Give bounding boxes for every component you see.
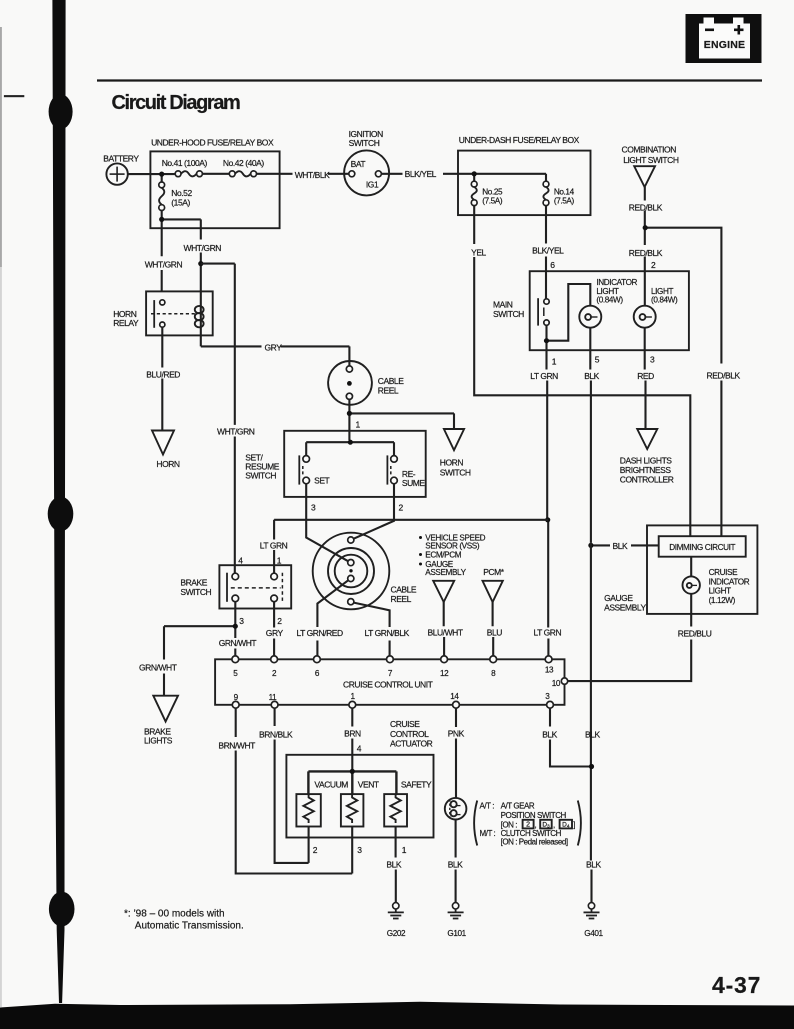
svg-text:WHT/GRN: WHT/GRN <box>217 426 255 436</box>
svg-text:SWITCH: SWITCH <box>245 470 276 480</box>
svg-text:BLK: BLK <box>613 541 628 551</box>
svg-text:RED/BLK: RED/BLK <box>629 248 663 258</box>
svg-text:4: 4 <box>238 555 243 565</box>
svg-text:GAUGE: GAUGE <box>604 593 633 603</box>
svg-text:IG1: IG1 <box>366 180 379 190</box>
svg-text:BATTERY: BATTERY <box>103 154 139 164</box>
svg-text:LT GRN: LT GRN <box>530 371 558 381</box>
svg-text:CRUISE: CRUISE <box>390 719 420 729</box>
svg-text:(7.5A): (7.5A) <box>482 196 503 205</box>
svg-text:ASSEMBLY: ASSEMBLY <box>604 603 646 613</box>
svg-text:4: 4 <box>357 744 362 754</box>
svg-text:,: , <box>535 820 537 829</box>
svg-text:WHT/GRN: WHT/GRN <box>145 259 183 269</box>
svg-text:UNDER-DASH FUSE/RELAY BOX: UNDER-DASH FUSE/RELAY BOX <box>459 135 580 145</box>
svg-text:UNDER-HOOD FUSE/RELAY BOX: UNDER-HOOD FUSE/RELAY BOX <box>151 138 274 148</box>
svg-text:CABLE: CABLE <box>391 584 417 594</box>
svg-text:(15A): (15A) <box>171 197 190 207</box>
svg-text:INDICATOR: INDICATOR <box>709 577 750 586</box>
svg-text:No.41 (100A): No.41 (100A) <box>162 158 208 168</box>
svg-text:1: 1 <box>356 419 361 429</box>
svg-text:8: 8 <box>491 669 496 678</box>
svg-text:LIGHT: LIGHT <box>709 587 732 596</box>
svg-text:D4: D4 <box>562 822 570 830</box>
svg-text:2: 2 <box>313 845 318 855</box>
svg-text:BLK/YEL: BLK/YEL <box>532 245 564 255</box>
svg-text:No.42 (40A): No.42 (40A) <box>223 158 264 168</box>
svg-text:No.25: No.25 <box>482 187 503 196</box>
svg-text:GRY: GRY <box>266 628 284 638</box>
svg-text:9: 9 <box>234 693 239 702</box>
svg-text:BLU: BLU <box>487 627 502 637</box>
svg-text:*: ’98 – 00 models with: *: ’98 – 00 models with <box>124 908 225 919</box>
svg-text:3: 3 <box>545 692 550 701</box>
svg-text:2: 2 <box>651 260 656 270</box>
svg-text:SAFETY: SAFETY <box>401 780 432 790</box>
svg-text:BLK: BLK <box>448 860 463 870</box>
svg-text:BLK: BLK <box>584 371 599 381</box>
svg-text:GRN/WHT: GRN/WHT <box>139 663 177 673</box>
svg-text:LT GRN: LT GRN <box>534 627 562 637</box>
svg-text:]: ] <box>573 820 575 829</box>
svg-text:BLK/YEL: BLK/YEL <box>405 169 437 179</box>
svg-text:PCM*: PCM* <box>483 567 505 577</box>
svg-text:PNK: PNK <box>448 728 465 738</box>
svg-text:5: 5 <box>233 669 238 678</box>
svg-text:6: 6 <box>315 669 320 678</box>
svg-text:COMBINATION: COMBINATION <box>622 145 677 155</box>
svg-text:3: 3 <box>650 355 655 365</box>
svg-text:RED/BLU: RED/BLU <box>678 628 712 638</box>
svg-text:2: 2 <box>272 669 277 678</box>
svg-text:M/T :: M/T : <box>480 829 496 838</box>
svg-text:5: 5 <box>595 355 600 365</box>
svg-text:BRN/WHT: BRN/WHT <box>218 740 255 750</box>
svg-text:1: 1 <box>402 845 407 855</box>
svg-text:RED/BLK: RED/BLK <box>707 370 741 380</box>
svg-text:13: 13 <box>545 665 554 674</box>
svg-text:SWITCH: SWITCH <box>493 309 524 319</box>
svg-text:RED: RED <box>637 371 654 381</box>
svg-text:CONTROLLER: CONTROLLER <box>620 474 674 484</box>
svg-text:BLK: BLK <box>386 860 401 870</box>
svg-text:CABLE: CABLE <box>378 376 404 386</box>
svg-text:SET: SET <box>314 476 329 486</box>
svg-text:SENSOR (VSS): SENSOR (VSS) <box>425 542 480 551</box>
svg-text:BLK: BLK <box>542 729 557 739</box>
svg-text:2: 2 <box>277 616 282 626</box>
svg-text:A/T :: A/T : <box>480 802 495 811</box>
svg-text:CRUISE CONTROL UNIT: CRUISE CONTROL UNIT <box>343 680 433 690</box>
svg-text:CRUISE: CRUISE <box>709 568 738 577</box>
svg-text:A/T GEAR: A/T GEAR <box>501 802 535 811</box>
svg-text:RED/BLK: RED/BLK <box>629 203 663 213</box>
svg-text:BRN: BRN <box>344 728 361 738</box>
svg-text:INDICATOR: INDICATOR <box>596 278 637 287</box>
svg-text:BLU/RED: BLU/RED <box>146 370 180 380</box>
svg-text:ACTUATOR: ACTUATOR <box>390 739 433 749</box>
svg-text:SWITCH: SWITCH <box>349 138 380 148</box>
svg-text:CONTROL: CONTROL <box>390 729 429 739</box>
svg-text:YEL: YEL <box>471 247 486 257</box>
svg-text:7: 7 <box>388 669 393 678</box>
svg-text:BRN/BLK: BRN/BLK <box>259 729 293 739</box>
svg-text:(0.84W): (0.84W) <box>651 295 678 304</box>
svg-text:SUME: SUME <box>402 478 426 488</box>
svg-text:LIGHT SWITCH: LIGHT SWITCH <box>623 155 679 165</box>
svg-text:POSITION SWITCH: POSITION SWITCH <box>501 811 567 820</box>
svg-text:LT GRN: LT GRN <box>260 540 288 550</box>
svg-text:3: 3 <box>357 845 362 855</box>
svg-text:12: 12 <box>440 669 449 678</box>
svg-text:HORN: HORN <box>440 457 464 467</box>
svg-text:(0.84W): (0.84W) <box>596 295 623 304</box>
svg-text:No.14: No.14 <box>554 187 575 196</box>
svg-text:WHT/GRN: WHT/GRN <box>184 243 222 253</box>
svg-text:ASSEMBLY: ASSEMBLY <box>425 568 466 577</box>
svg-text:11: 11 <box>269 693 278 702</box>
svg-text:[ON : Pedal released]: [ON : Pedal released] <box>501 837 568 846</box>
svg-text:WHT/BLK: WHT/BLK <box>295 170 330 180</box>
svg-text:,: , <box>553 820 555 829</box>
svg-text:[ON :: [ON : <box>501 820 518 829</box>
svg-text:3: 3 <box>239 616 244 626</box>
svg-text:BAT: BAT <box>351 159 366 169</box>
svg-text:VENT: VENT <box>358 780 379 790</box>
svg-text:4-37: 4-37 <box>712 972 761 998</box>
svg-text:2: 2 <box>399 502 404 512</box>
svg-text:BRIGHTNESS: BRIGHTNESS <box>620 465 672 475</box>
svg-text:BLK: BLK <box>585 729 600 739</box>
svg-text:2: 2 <box>526 822 530 829</box>
svg-text:6: 6 <box>550 260 555 270</box>
svg-text:Automatic Transmission.: Automatic Transmission. <box>135 920 244 931</box>
svg-text:10: 10 <box>552 679 561 688</box>
svg-text:ECM/PCM: ECM/PCM <box>425 551 461 560</box>
svg-text:G401: G401 <box>584 929 603 938</box>
svg-text:BLK: BLK <box>586 860 601 870</box>
svg-text:3: 3 <box>311 502 316 512</box>
svg-text:G101: G101 <box>447 929 466 938</box>
svg-text:DASH LIGHTS: DASH LIGHTS <box>620 455 673 465</box>
svg-text:GRN/WHT: GRN/WHT <box>219 638 257 648</box>
svg-text:(1.12W): (1.12W) <box>709 596 736 605</box>
svg-text:VACUUM: VACUUM <box>314 780 348 790</box>
svg-text:BLU/WHT: BLU/WHT <box>428 627 463 637</box>
svg-text:LIGHTS: LIGHTS <box>144 736 173 746</box>
svg-text:DIMMING CIRCUIT: DIMMING CIRCUIT <box>669 543 735 552</box>
svg-text:G202: G202 <box>387 929 406 938</box>
svg-text:LT GRN/RED: LT GRN/RED <box>297 628 344 638</box>
svg-text:1: 1 <box>351 692 356 701</box>
svg-text:GRY: GRY <box>265 342 283 352</box>
svg-text:LT GRN/BLK: LT GRN/BLK <box>365 628 410 638</box>
svg-text:REEL: REEL <box>391 594 412 604</box>
svg-text:SWITCH: SWITCH <box>180 587 211 597</box>
svg-text:(7.5A): (7.5A) <box>554 196 575 205</box>
svg-text:HORN: HORN <box>156 459 180 469</box>
svg-text:RELAY: RELAY <box>113 318 139 328</box>
svg-text:REEL: REEL <box>378 385 399 395</box>
svg-text:Circuit Diagram: Circuit Diagram <box>112 92 241 114</box>
svg-text:SWITCH: SWITCH <box>440 467 471 477</box>
svg-text:1: 1 <box>552 356 557 366</box>
svg-text:ENGINE: ENGINE <box>704 39 745 51</box>
svg-text:1: 1 <box>277 555 282 565</box>
svg-text:14: 14 <box>450 692 459 701</box>
